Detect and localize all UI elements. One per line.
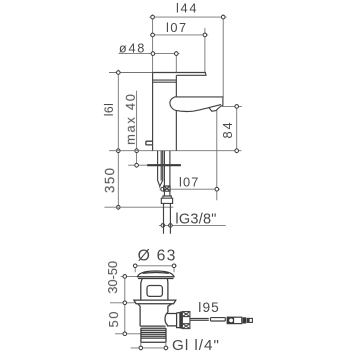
tap spout	[170, 97, 223, 112]
dim 107 circles	[151, 33, 155, 37]
dim 161 text	[102, 103, 116, 116]
svg-text:l44: l44	[176, 1, 198, 16]
supply hose tube	[164, 151, 170, 186]
dim 30-50/50 vertical line	[110, 274, 141, 336]
svg-text:50: 50	[106, 310, 121, 328]
dim 107 lower line	[160, 110, 220, 200]
waste dome flange	[137, 271, 174, 278]
adapter steps	[161, 191, 172, 203]
dim max40 circles	[135, 149, 139, 153]
dim max40 text	[123, 92, 138, 144]
waste lower body	[138, 304, 172, 326]
dim 30-50 circles	[123, 275, 127, 279]
waste side outlet	[167, 313, 180, 328]
dim ø48 line	[119, 51, 180, 73]
tap body	[153, 73, 177, 151]
dim 50 text	[106, 310, 121, 328]
svg-text:ø48: ø48	[119, 40, 146, 55]
svg-text:30-50: 30-50	[105, 261, 120, 294]
dim 161 circles	[117, 71, 121, 75]
svg-text:l07: l07	[166, 20, 188, 35]
waste neck	[141, 278, 168, 300]
dim max40 line	[128, 91, 148, 168]
tap lever handle	[176, 73, 206, 76]
svg-text:Ø 63: Ø 63	[138, 248, 177, 265]
svg-text:84: 84	[220, 120, 235, 138]
dim 30-50 text	[105, 261, 120, 294]
label G 1 1/4 circles	[139, 346, 143, 350]
svg-text:Gl l/4": Gl l/4"	[172, 337, 220, 354]
svg-text:l07: l07	[179, 174, 200, 189]
label IG3/8 leader	[159, 224, 226, 226]
svg-text:lG3/8": lG3/8"	[175, 211, 216, 227]
label IG3/8 circles	[161, 224, 165, 228]
supply pipe G3/8	[164, 203, 171, 233]
dim Ø63 circles	[133, 264, 137, 268]
waste threads G 1 1/4	[141, 328, 166, 342]
rod end piece	[247, 318, 252, 322]
rod clevis	[227, 317, 242, 324]
washer bar under deck	[147, 164, 181, 166]
tap aerator	[209, 106, 221, 111]
deck reference line	[109, 150, 242, 152]
dim 107 lower circles	[161, 187, 165, 191]
hose fitting	[164, 186, 171, 191]
dim 84 line	[222, 104, 242, 153]
waste clamp band	[134, 300, 176, 304]
tap side nub	[146, 141, 153, 145]
svg-text:max 40: max 40	[123, 92, 138, 144]
dim Ø63 line	[133, 266, 177, 273]
svg-text:l6l: l6l	[102, 103, 116, 116]
label G 1 1/4 leader	[131, 342, 169, 350]
dim 144 line	[150, 14, 227, 97]
svg-text:350: 350	[102, 167, 117, 194]
waste knurled nut	[180, 312, 190, 329]
waste overflow window	[147, 286, 162, 297]
rod joint bars	[243, 317, 247, 323]
dim 350 text	[102, 167, 117, 194]
dim 84 circles	[235, 105, 239, 109]
pop-up rod horizontal	[190, 318, 225, 321]
svg-text:l95: l95	[198, 300, 220, 315]
dim 161/350 vertical line	[109, 70, 153, 210]
dim 144 circles	[151, 15, 155, 19]
dim 84 text	[220, 120, 235, 138]
dim 107 line	[150, 28, 208, 73]
pop-up rod tube	[158, 151, 163, 188]
dim 350 circle + ext	[117, 205, 121, 209]
dim ø48 circles	[151, 52, 155, 56]
